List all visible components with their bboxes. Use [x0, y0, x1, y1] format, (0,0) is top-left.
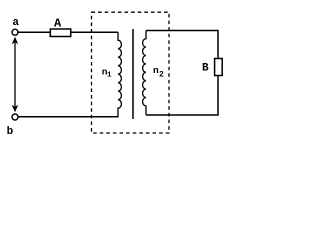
secondary winding n2: [143, 31, 146, 116]
transformer core: [132, 29, 134, 119]
secondary winding label n2: [153, 65, 164, 79]
load B resistor: [215, 59, 223, 76]
wire load B to secondary bottom: [146, 76, 218, 116]
transformer dashed box: [92, 12, 170, 133]
voltage arrow between a and b: [12, 38, 17, 112]
wire a to resistor A: [18, 31, 50, 33]
resistor A: [50, 29, 70, 37]
wire b to primary winding bottom: [18, 116, 118, 118]
svg-text:a: a: [12, 17, 19, 29]
wire secondary top to load B: [146, 31, 218, 59]
terminal a: [12, 29, 18, 35]
svg-text:1: 1: [107, 71, 112, 79]
terminal b: [12, 114, 18, 120]
svg-text:b: b: [7, 126, 14, 138]
wire resistor A to primary winding: [71, 31, 118, 33]
primary winding n1: [118, 32, 121, 117]
primary winding label n1: [102, 67, 112, 80]
svg-text:2: 2: [159, 70, 164, 79]
svg-text:B: B: [202, 63, 209, 75]
